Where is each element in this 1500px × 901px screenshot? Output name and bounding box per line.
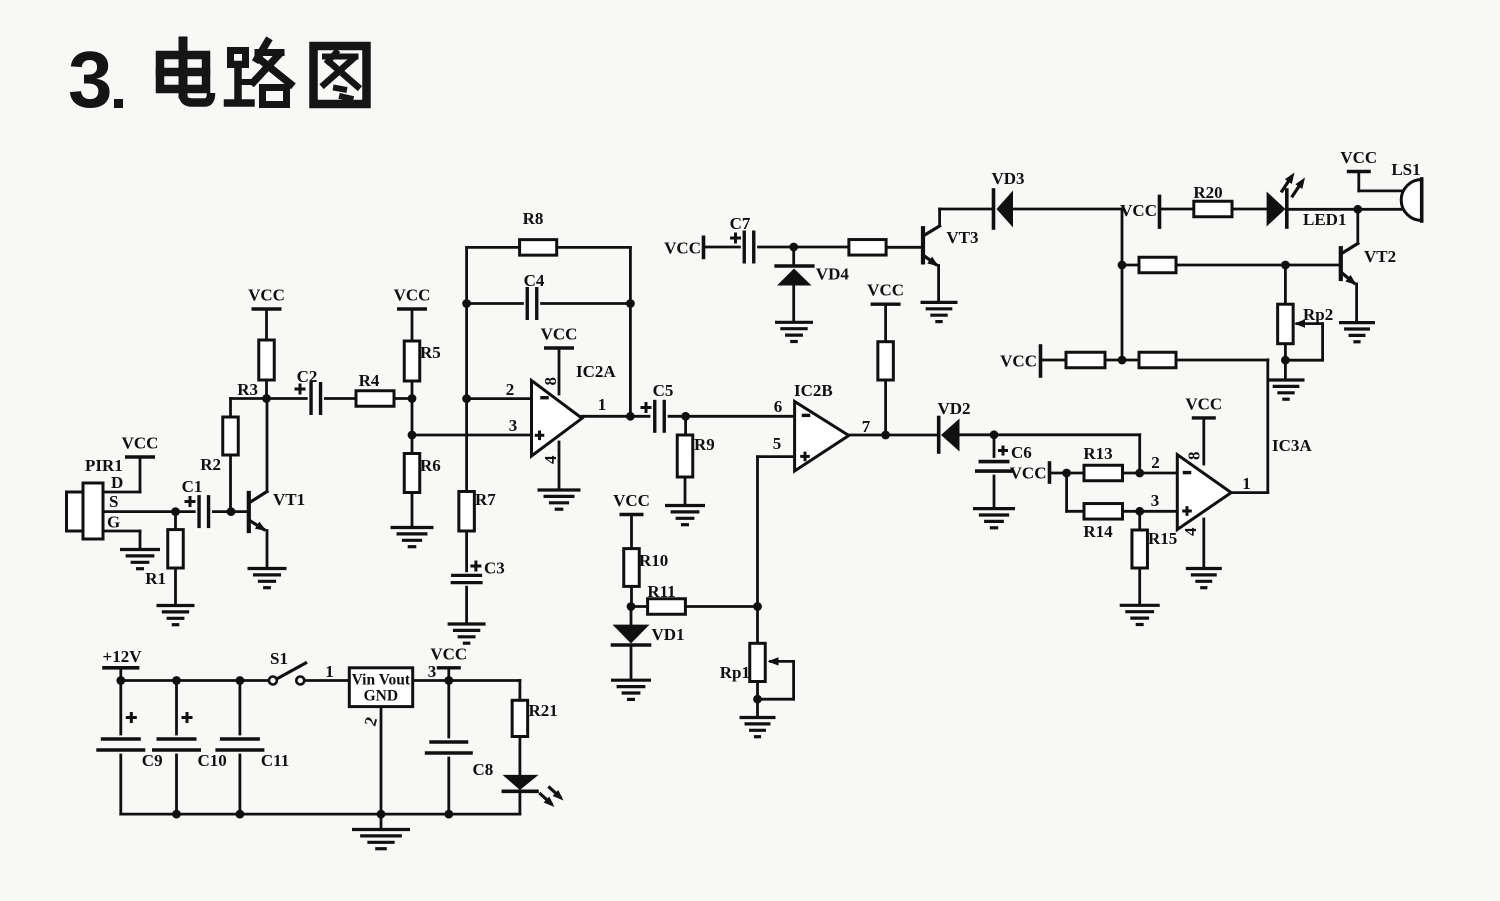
svg-text:R15: R15 [1148,529,1177,548]
svg-text:VCC: VCC [1185,394,1222,413]
svg-text:R21: R21 [529,701,558,720]
svg-text:VT1: VT1 [273,490,305,509]
svg-text:R2: R2 [200,455,221,474]
svg-text:GND: GND [364,688,398,705]
svg-text:VCC: VCC [1120,201,1157,220]
svg-text:S: S [109,492,118,511]
svg-text:S1: S1 [270,649,288,668]
svg-text:VCC: VCC [248,286,285,305]
svg-text:3: 3 [428,662,437,681]
svg-text:C2: C2 [297,367,318,386]
svg-text:R1: R1 [145,569,166,588]
svg-text:VCC: VCC [1000,352,1037,371]
svg-text:C1: C1 [182,477,203,496]
svg-text:R10: R10 [639,551,668,570]
svg-text:C5: C5 [653,381,674,400]
svg-text:VCC: VCC [1340,148,1377,167]
svg-text:VCC: VCC [664,239,701,258]
svg-text:D: D [111,473,123,492]
svg-text:VD3: VD3 [991,169,1024,188]
svg-text:VD1: VD1 [652,625,685,644]
svg-text:C9: C9 [142,751,163,770]
svg-text:8: 8 [541,377,560,386]
svg-text:C4: C4 [524,271,545,290]
svg-text:IC3A: IC3A [1272,436,1312,455]
svg-text:C7: C7 [730,214,751,233]
svg-text:7: 7 [862,417,871,436]
svg-text:R14: R14 [1083,522,1113,541]
svg-text:R7: R7 [475,490,496,509]
svg-text:R11: R11 [647,582,675,601]
svg-text:R3: R3 [237,380,258,399]
svg-text:G: G [107,513,120,532]
svg-text:R4: R4 [359,371,380,390]
svg-text:IC2B: IC2B [794,381,833,400]
svg-text:C8: C8 [473,760,494,779]
svg-text:VCC: VCC [613,491,650,510]
svg-text:R8: R8 [523,209,544,228]
svg-text:VT3: VT3 [946,228,978,247]
svg-text:VD4: VD4 [816,265,850,284]
svg-text:R6: R6 [420,456,441,475]
svg-text:R13: R13 [1083,444,1112,463]
svg-text:LED1: LED1 [1303,210,1346,229]
svg-text:C3: C3 [484,559,505,578]
svg-text:4: 4 [541,455,560,464]
svg-text:C6: C6 [1011,443,1032,462]
svg-text:2: 2 [1151,453,1160,472]
svg-text:1: 1 [325,662,334,681]
svg-text:C10: C10 [198,751,227,770]
svg-text:IC2A: IC2A [576,362,616,381]
svg-text:VCC: VCC [394,286,431,305]
svg-text:VCC: VCC [867,281,904,300]
svg-text:2: 2 [506,380,515,399]
svg-text:8: 8 [1185,452,1204,461]
svg-text:R20: R20 [1193,183,1222,202]
svg-text:6: 6 [774,397,783,416]
svg-text:VCC: VCC [541,325,578,344]
svg-text:R9: R9 [694,435,715,454]
svg-text:5: 5 [773,434,782,453]
svg-text:1: 1 [1242,474,1251,493]
svg-text:4: 4 [1181,527,1200,536]
svg-text:Vin Vout: Vin Vout [352,672,411,689]
svg-text:VCC: VCC [1010,464,1047,483]
svg-text:+12V: +12V [103,647,143,666]
svg-text:R5: R5 [420,343,441,362]
svg-text:VT2: VT2 [1364,247,1396,266]
svg-text:VCC: VCC [122,434,159,453]
svg-text:VCC: VCC [430,644,467,663]
svg-text:LS1: LS1 [1391,160,1420,179]
svg-text:3: 3 [68,35,113,124]
svg-text:3: 3 [1151,491,1160,510]
svg-text:1: 1 [598,395,607,414]
svg-text:C11: C11 [261,751,289,770]
svg-text:VD2: VD2 [937,399,970,418]
svg-text:3: 3 [509,416,518,435]
svg-text:Rp1: Rp1 [720,663,750,682]
svg-text:Rp2: Rp2 [1303,305,1333,324]
